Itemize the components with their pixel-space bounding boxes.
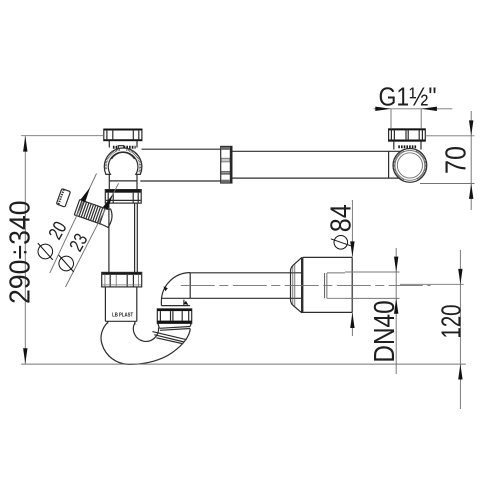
DN40 top ext line xyxy=(345,271,400,273)
label dia20 xyxy=(32,218,71,264)
trap outlet hatch lines xyxy=(152,332,186,344)
120 top ext line xyxy=(400,283,464,285)
leader line dia23 xyxy=(66,183,119,287)
G1half dim line xyxy=(374,108,453,110)
elbow swivel arrow 2 xyxy=(184,301,189,305)
G arrow right-pointing xyxy=(375,107,391,111)
G ext line left xyxy=(390,109,392,129)
left dim arrow up xyxy=(23,136,27,152)
U-bend inner hole xyxy=(133,323,158,342)
dia84 arrow up xyxy=(350,313,354,329)
tee ring knurl ticks xyxy=(104,148,141,172)
svg-text:G1½": G1½" xyxy=(378,83,436,112)
pipe joint line at elbow xyxy=(388,151,390,178)
120 arrow up xyxy=(458,364,462,380)
elbow swivel arrow 1 xyxy=(163,286,167,291)
vertical pipe xyxy=(109,203,137,272)
right elbow fitting nut xyxy=(389,129,426,141)
G arrow left-pointing xyxy=(421,107,437,111)
leader line dia20 xyxy=(50,174,97,274)
corrugated overflow hose xyxy=(74,200,112,228)
trap outlet nut xyxy=(157,309,191,323)
wall socket tube xyxy=(303,257,352,312)
svg-text:DN40: DN40 xyxy=(368,300,400,362)
DN40 bottom ext line xyxy=(345,297,400,299)
outlet elbow above nut xyxy=(161,273,190,306)
tee knurl band with tab xyxy=(113,146,136,151)
left dim 290-340 extension top xyxy=(21,135,104,137)
pipe centerline dash-dot xyxy=(181,284,431,286)
120 dim line xyxy=(459,250,461,409)
svg-text:120: 120 xyxy=(436,304,467,338)
leader arrow dia23 xyxy=(103,194,113,209)
trap outlet washer lines xyxy=(158,323,192,330)
horizontal top pipe left segment xyxy=(140,149,220,181)
dia84 dim line lower xyxy=(351,313,353,336)
tee C-ring rosette xyxy=(104,148,142,174)
DIMS xyxy=(3,83,474,409)
svg-text:84: 84 xyxy=(324,204,357,232)
70 arrow up xyxy=(469,183,473,199)
right elbow knurl band xyxy=(398,145,417,148)
wall rosette flange xyxy=(291,257,303,313)
G ext line right xyxy=(420,109,422,129)
left dim arrow down xyxy=(23,348,27,364)
label dia23 xyxy=(53,230,92,276)
right elbow neck xyxy=(394,141,421,149)
DN40 ext from pipe bottom xyxy=(327,297,345,299)
svg-text:LB PLAST: LB PLAST xyxy=(112,312,134,319)
PARTS xyxy=(56,129,430,365)
svg-text:290÷340: 290÷340 xyxy=(3,200,35,304)
DN40 arrow up xyxy=(394,298,398,314)
tee neck xyxy=(109,141,137,148)
right elbow ring circles xyxy=(393,149,427,183)
DN40 dim line xyxy=(395,248,397,374)
70 dim bottom ext xyxy=(420,183,475,185)
tee fitting top nut G1.5 xyxy=(104,129,142,141)
right elbow ring knurl ticks xyxy=(393,150,427,180)
dia84 arrow down xyxy=(350,241,354,257)
70 dim top ext xyxy=(425,135,474,137)
coupling nut on top pipe xyxy=(221,146,232,183)
horizontal top pipe right segment xyxy=(232,151,402,178)
dia84 dim line upper xyxy=(351,200,353,257)
overflow hose cap xyxy=(56,189,70,208)
DN40 ext from pipe top xyxy=(327,272,345,274)
U-bend outer wall xyxy=(101,322,190,364)
tee body below ring xyxy=(109,175,137,190)
outlet horizontal pipe xyxy=(190,273,301,299)
bottom tangent long extension line xyxy=(21,363,466,365)
120 arrow down xyxy=(458,269,462,285)
tee lower nut xyxy=(105,190,141,204)
pipe end inside socket xyxy=(325,273,327,298)
trap inlet nut xyxy=(102,272,142,287)
70 arrow down xyxy=(469,120,473,135)
dia84 diameter symbol xyxy=(331,236,351,250)
leader arrow dia20 xyxy=(80,187,90,202)
DN40 arrow down xyxy=(394,257,398,273)
svg-text:70: 70 xyxy=(439,146,472,174)
70 dim line xyxy=(470,111,472,210)
left dim line xyxy=(24,136,26,364)
trap body tube xyxy=(105,287,136,325)
